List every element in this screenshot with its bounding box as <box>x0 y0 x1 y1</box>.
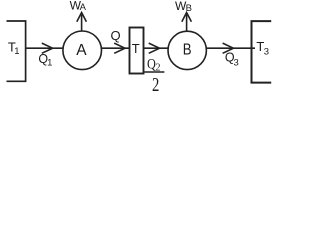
svg-text:A: A <box>76 42 87 59</box>
svg-text:A: A <box>80 2 87 13</box>
svg-text:B: B <box>186 3 192 14</box>
svg-text:3: 3 <box>233 58 238 69</box>
svg-text:B: B <box>183 42 192 59</box>
svg-text:Q: Q <box>110 28 120 43</box>
svg-text:1: 1 <box>14 46 19 57</box>
svg-text:1: 1 <box>47 58 52 69</box>
svg-text:3: 3 <box>264 46 269 57</box>
svg-text:2: 2 <box>152 73 159 96</box>
svg-text:T: T <box>132 41 140 56</box>
